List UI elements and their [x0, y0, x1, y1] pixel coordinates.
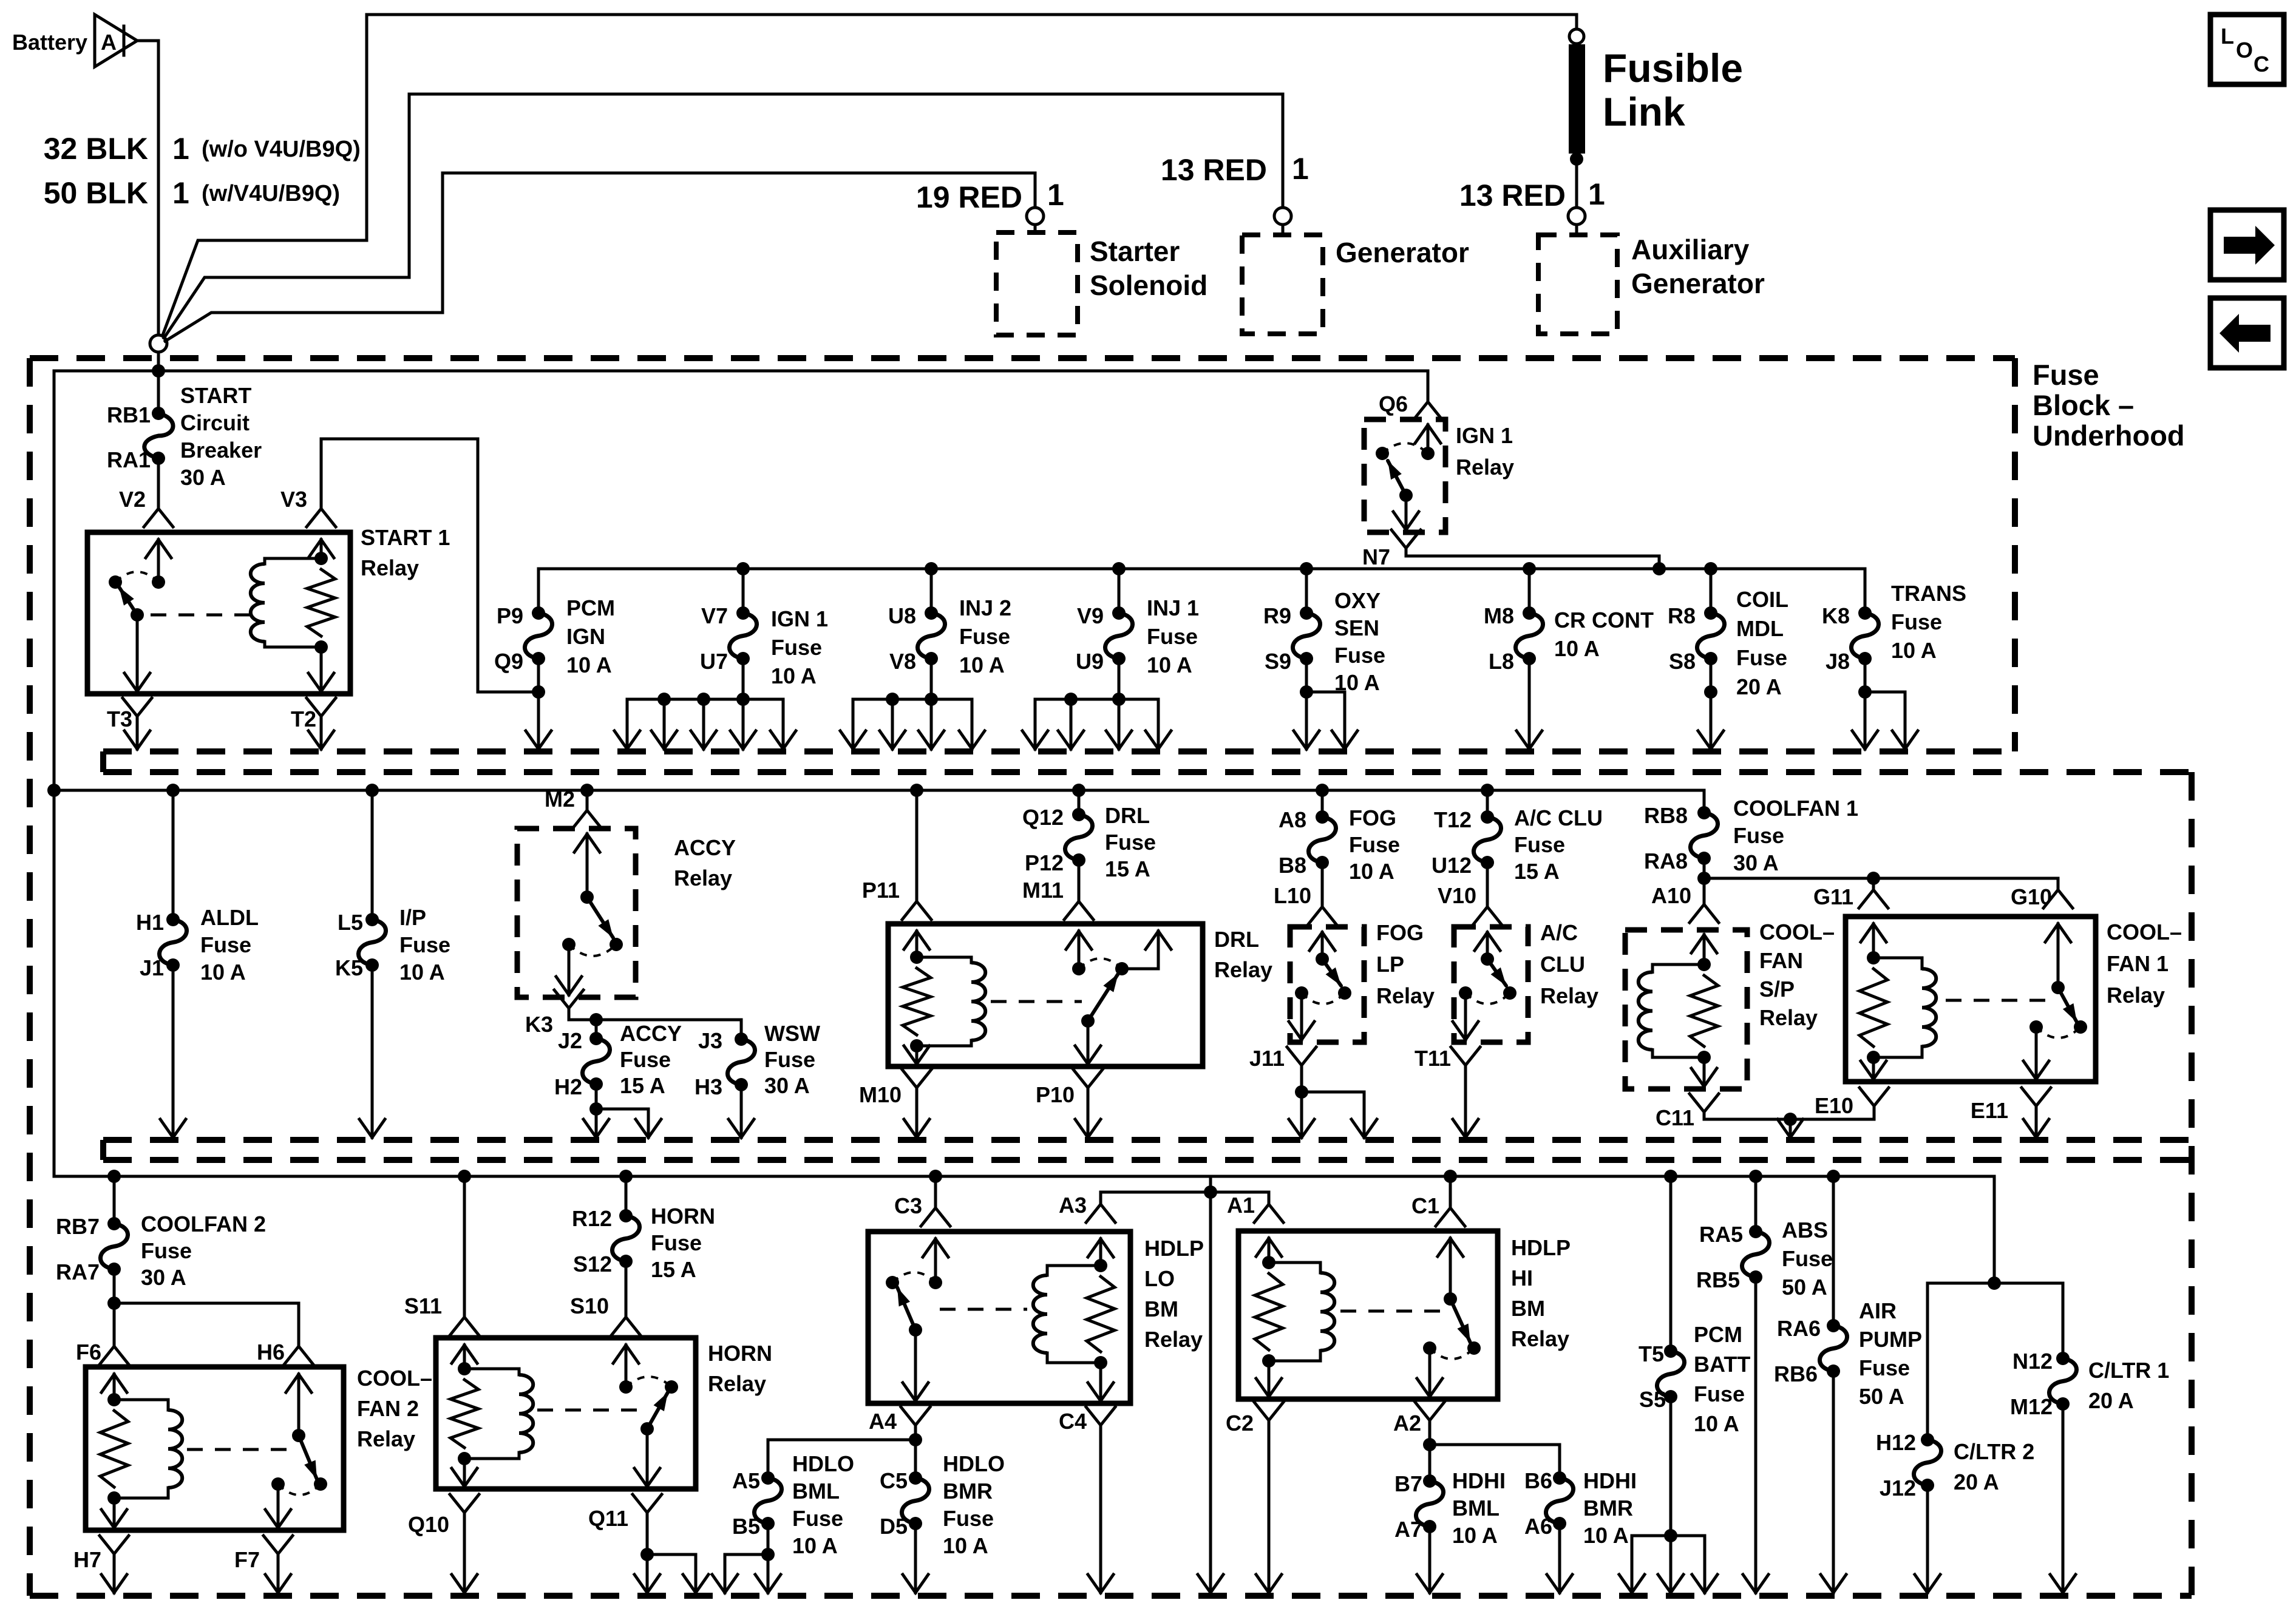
svg-text:32 BLK: 32 BLK	[44, 132, 148, 166]
svg-text:10 A: 10 A	[200, 960, 246, 985]
fuse HDLO BMR 10A	[914, 1440, 917, 1478]
PCM BATT output arrows	[1669, 1397, 1673, 1536]
bus band1	[54, 370, 1428, 373]
svg-text:Fuse: Fuse	[943, 1506, 994, 1531]
ACCY relay switch	[586, 834, 589, 897]
terminal A10	[1703, 878, 1706, 904]
svg-text:S8: S8	[1669, 649, 1696, 674]
fuse ALDL 10A	[166, 784, 180, 797]
svg-text:PCM: PCM	[1694, 1322, 1742, 1347]
svg-text:13 RED: 13 RED	[1459, 178, 1566, 212]
svg-text:PCM: PCM	[566, 595, 615, 620]
DRL relay resistor	[903, 968, 931, 1035]
svg-text:B6: B6	[1524, 1468, 1552, 1493]
terminal A2	[1415, 1402, 1444, 1420]
svg-text:V8: V8	[889, 649, 916, 674]
svg-text:Q10: Q10	[408, 1512, 449, 1537]
fuse COIL MDL 20A	[1704, 562, 1717, 575]
S/P relay coil	[1652, 963, 1704, 966]
fuse INJ 2 10A	[925, 562, 938, 575]
svg-text:D5: D5	[880, 1514, 908, 1539]
svg-text:50 A: 50 A	[1782, 1275, 1827, 1300]
HDLP HI BM relay coil block	[1268, 1238, 1271, 1263]
HI BM relay coil	[1269, 1261, 1320, 1264]
terminal S11	[458, 1170, 471, 1183]
svg-text:FOG: FOG	[1349, 805, 1396, 830]
svg-text:15 A: 15 A	[1105, 856, 1150, 881]
HDLO BMR output arrow	[914, 1524, 917, 1593]
wire PCM IGN output	[537, 659, 540, 692]
HDLP LO BM relay switch	[934, 1239, 937, 1283]
svg-text:Generator: Generator	[1631, 268, 1765, 299]
svg-text:HDLP: HDLP	[1144, 1236, 1204, 1261]
svg-text:Relay: Relay	[361, 555, 419, 580]
svg-text:Q6: Q6	[1379, 392, 1408, 416]
terminal G10	[2057, 878, 2060, 890]
HORN relay coil block	[463, 1345, 466, 1369]
arrow T2 to band2	[320, 716, 323, 749]
START relay coil block	[320, 540, 323, 558]
svg-text:CR CONT: CR CONT	[1554, 608, 1654, 632]
terminal E10	[1860, 1088, 1889, 1106]
svg-text:COOL–: COOL–	[2107, 920, 2182, 944]
svg-text:Link: Link	[1603, 89, 1685, 134]
terminal P11	[910, 784, 923, 797]
COOLFAN1 relay coil block	[1872, 924, 1875, 958]
svg-text:FAN: FAN	[1759, 948, 1803, 973]
svg-text:MDL: MDL	[1736, 616, 1784, 641]
svg-text:U8: U8	[888, 603, 916, 628]
svg-text:N12: N12	[2012, 1349, 2053, 1374]
svg-text:FOG: FOG	[1376, 920, 1424, 945]
svg-text:10 A: 10 A	[1147, 653, 1192, 677]
svg-text:B8: B8	[1279, 853, 1306, 878]
svg-text:S9: S9	[1265, 649, 1291, 674]
svg-text:Relay: Relay	[708, 1371, 766, 1396]
svg-text:G11: G11	[1813, 884, 1853, 909]
svg-text:M10: M10	[859, 1082, 902, 1107]
svg-text:15 A: 15 A	[620, 1073, 665, 1098]
svg-text:COIL: COIL	[1736, 587, 1788, 612]
fuse block dashed border right band1	[2012, 358, 2018, 751]
terminal P10	[1073, 1070, 1102, 1088]
E11 output arrow	[2035, 1106, 2038, 1137]
wire A2 to HDHI fuses	[1428, 1420, 1432, 1445]
svg-text:Relay: Relay	[1214, 957, 1272, 982]
HDLO BML output arrows	[767, 1524, 770, 1554]
svg-text:K5: K5	[335, 955, 363, 980]
terminal C3	[929, 1170, 942, 1183]
svg-text:K8: K8	[1822, 603, 1850, 628]
terminal J11	[1287, 1047, 1316, 1065]
fuse COOLFAN 1 30A	[1703, 790, 1706, 813]
HORN relay coil	[464, 1368, 519, 1371]
svg-text:Fuse: Fuse	[1782, 1246, 1833, 1271]
svg-text:H7: H7	[73, 1547, 101, 1572]
INJ 2 fuse output manifold	[930, 659, 933, 699]
svg-text:J11: J11	[1249, 1046, 1285, 1071]
svg-text:10 A: 10 A	[1452, 1523, 1498, 1548]
generator box	[1242, 235, 1323, 334]
svg-text:Fuse: Fuse	[1694, 1381, 1745, 1406]
COOLFAN2 relay coil	[114, 1398, 168, 1402]
left vertical bus	[53, 371, 56, 1176]
COOLFAN1 relay coil	[1873, 957, 1922, 960]
svg-text:S10: S10	[570, 1293, 609, 1318]
svg-text:10 A: 10 A	[1554, 636, 1600, 661]
svg-text:Block –: Block –	[2033, 389, 2134, 421]
svg-text:M2: M2	[545, 787, 575, 812]
right arrow box	[2210, 210, 2284, 280]
svg-text:START 1: START 1	[361, 525, 450, 550]
Q11 output arrows	[646, 1513, 649, 1554]
svg-text:30 A: 30 A	[764, 1073, 810, 1098]
terminal M2	[580, 784, 594, 797]
terminal C11	[1690, 1094, 1719, 1112]
svg-text:HDHI: HDHI	[1452, 1468, 1506, 1493]
svg-text:Underhood: Underhood	[2033, 419, 2185, 452]
svg-text:HDLO: HDLO	[792, 1451, 854, 1476]
svg-text:Breaker: Breaker	[180, 438, 262, 463]
svg-text:Starter: Starter	[1090, 236, 1180, 267]
wire C/LTR feed	[1993, 1176, 1996, 1283]
svg-text:P12: P12	[1025, 850, 1064, 875]
terminal A4	[901, 1407, 930, 1425]
svg-text:30 A: 30 A	[1733, 850, 1779, 875]
svg-text:P11: P11	[862, 878, 900, 903]
terminal A1	[1268, 1192, 1271, 1204]
svg-text:A1: A1	[1227, 1193, 1255, 1218]
svg-text:RA6: RA6	[1777, 1316, 1821, 1341]
ALDL output arrow	[172, 965, 175, 1137]
HDLP LO BM relay coil block	[1099, 1239, 1102, 1266]
svg-text:F7: F7	[234, 1547, 260, 1572]
svg-text:S/P: S/P	[1759, 977, 1795, 1002]
svg-text:Fuse: Fuse	[959, 624, 1010, 649]
fuse HORN 15A	[619, 1170, 633, 1183]
svg-text:10 A: 10 A	[771, 663, 817, 688]
DRL relay coil block	[915, 931, 919, 957]
svg-text:B5: B5	[732, 1514, 760, 1539]
svg-text:Q9: Q9	[494, 649, 523, 674]
svg-text:L5: L5	[338, 910, 363, 935]
fuse INJ 1 10A	[1112, 562, 1126, 575]
svg-text:A3: A3	[1059, 1193, 1087, 1218]
terminal Q10	[450, 1494, 479, 1513]
DRL relay coil	[917, 956, 971, 959]
bus band3	[54, 1175, 1994, 1178]
START relay coil	[265, 557, 321, 560]
svg-text:Fuse: Fuse	[1736, 645, 1787, 670]
DRL relay switch	[1078, 931, 1081, 969]
svg-text:A: A	[101, 30, 117, 55]
svg-text:1: 1	[172, 176, 189, 210]
svg-text:RA7: RA7	[56, 1259, 100, 1284]
COOLFAN2 relay switch	[297, 1374, 301, 1436]
COOLFAN 1 relay box	[1846, 917, 2096, 1082]
wire A4 to HDLO fuses	[914, 1425, 917, 1440]
fuse HDLO BML 10A	[767, 1440, 770, 1478]
START relay switch	[157, 540, 160, 582]
left arrow box	[2210, 298, 2284, 368]
fuse HDHI BML 10A	[1428, 1445, 1432, 1481]
svg-text:L8: L8	[1489, 649, 1514, 674]
svg-text:A/C CLU: A/C CLU	[1514, 805, 1603, 830]
svg-text:Fuse: Fuse	[2033, 359, 2099, 391]
svg-text:FAN 1: FAN 1	[2107, 951, 2169, 976]
terminal E11	[2022, 1088, 2051, 1106]
svg-text:CLU: CLU	[1540, 952, 1585, 977]
svg-text:V9: V9	[1077, 603, 1104, 628]
svg-text:Q11: Q11	[588, 1506, 628, 1531]
svg-text:Fuse: Fuse	[792, 1506, 843, 1531]
svg-text:M8: M8	[1484, 603, 1514, 628]
fuse PCM BATT 10A	[1664, 1170, 1677, 1183]
svg-text:TRANS: TRANS	[1891, 581, 1966, 606]
svg-text:T5: T5	[1639, 1341, 1664, 1366]
svg-text:Relay: Relay	[1540, 983, 1598, 1008]
svg-text:INJ 1: INJ 1	[1147, 595, 1199, 620]
svg-text:C5: C5	[880, 1468, 908, 1493]
svg-text:H2: H2	[554, 1074, 582, 1099]
svg-text:RA1: RA1	[107, 447, 151, 472]
svg-text:F6: F6	[76, 1340, 101, 1364]
terminal L10	[1321, 863, 1324, 907]
HI BM relay resistor	[1255, 1273, 1283, 1350]
svg-text:COOLFAN 1: COOLFAN 1	[1733, 796, 1858, 821]
svg-text:L10: L10	[1274, 883, 1311, 908]
circuit breaker START 30A	[157, 371, 160, 413]
svg-text:Fusible: Fusible	[1603, 46, 1743, 90]
ACCY fuse output	[595, 1084, 598, 1109]
svg-text:HDLO: HDLO	[943, 1451, 1005, 1476]
terminal H6	[297, 1303, 301, 1346]
svg-text:RB6: RB6	[1774, 1361, 1818, 1386]
svg-text:BATT: BATT	[1694, 1352, 1750, 1377]
svg-text:10 A: 10 A	[399, 960, 445, 985]
svg-text:Fuse: Fuse	[764, 1047, 815, 1072]
HDLP HI BM relay box	[1238, 1231, 1498, 1399]
fusible link	[1569, 29, 1584, 44]
ACCY relay dashed box	[517, 829, 636, 997]
COOLFAN1 relay switch	[2057, 924, 2060, 988]
wire A3/A1 feed	[1209, 1176, 1212, 1192]
fuse block outer dashed border left	[27, 358, 33, 1596]
svg-text:10 A: 10 A	[943, 1533, 988, 1558]
svg-text:RA5: RA5	[1699, 1222, 1743, 1247]
band2 bottom dashed border	[103, 1137, 2192, 1143]
START relay resistor	[307, 569, 335, 636]
terminal C2	[1254, 1402, 1283, 1420]
svg-text:Relay: Relay	[1144, 1327, 1203, 1352]
terminal V10	[1486, 863, 1489, 907]
svg-text:IGN: IGN	[566, 624, 605, 649]
svg-text:E11: E11	[1971, 1098, 2008, 1123]
terminal S10	[625, 1261, 628, 1317]
wire to G11/G10	[1704, 877, 2058, 880]
WSW fuse output	[740, 1085, 743, 1137]
svg-text:10 A: 10 A	[959, 653, 1005, 677]
svg-text:H3: H3	[695, 1074, 722, 1099]
svg-text:V7: V7	[701, 603, 728, 628]
terminal C4	[1086, 1407, 1115, 1425]
terminal G11	[1872, 878, 1875, 890]
fuse block dashed border top	[30, 355, 2015, 361]
fuse DRL 15A	[1072, 784, 1085, 797]
S/P relay coil block	[1703, 935, 1706, 964]
svg-text:Auxiliary: Auxiliary	[1631, 234, 1750, 265]
svg-text:N7: N7	[1362, 544, 1390, 569]
svg-text:Relay: Relay	[1456, 455, 1514, 480]
bus band1 fuse feed	[538, 568, 1865, 571]
svg-text:T3: T3	[107, 707, 132, 731]
wire V3 feed from PCM IGN node	[321, 439, 538, 692]
IGN 1 relay switch	[1427, 425, 1430, 453]
svg-text:IGN 1: IGN 1	[1456, 423, 1513, 448]
svg-text:A7: A7	[1394, 1517, 1422, 1542]
terminal F6	[113, 1303, 116, 1346]
svg-text:LP: LP	[1376, 952, 1404, 977]
J11 output arrows	[1300, 1065, 1303, 1092]
svg-text:A8: A8	[1279, 807, 1306, 832]
svg-text:BML: BML	[1452, 1496, 1500, 1520]
svg-text:Relay: Relay	[357, 1426, 415, 1451]
fuse I/P 10A	[365, 784, 379, 797]
OXY SEN fuse output	[1305, 659, 1308, 692]
svg-text:C4: C4	[1059, 1409, 1087, 1434]
svg-text:S5: S5	[1639, 1387, 1666, 1412]
terminal C1	[1444, 1170, 1457, 1183]
fuse ABS 50A	[1749, 1170, 1762, 1183]
svg-text:SEN: SEN	[1334, 615, 1379, 640]
svg-text:(w/V4U/B9Q): (w/V4U/B9Q)	[202, 181, 340, 206]
svg-text:HI: HI	[1511, 1266, 1533, 1290]
svg-text:Generator: Generator	[1336, 237, 1469, 268]
svg-text:J2: J2	[558, 1028, 582, 1053]
START 1 relay box	[87, 532, 350, 694]
COOLFAN2 relay resistor	[100, 1411, 128, 1487]
svg-text:C/LTR 1: C/LTR 1	[2088, 1358, 2169, 1383]
INJ 1 fuse output manifold	[1118, 659, 1121, 699]
svg-text:Fuse: Fuse	[651, 1230, 702, 1255]
terminal T2	[307, 698, 336, 716]
fuse FOG 10A	[1316, 784, 1329, 797]
HDLP LO BM relay linkage	[940, 1308, 1027, 1311]
IGN 1 fuse output manifold	[742, 659, 745, 699]
wire fan line 2 to generator	[164, 94, 1283, 338]
E10 junction arrow	[1789, 1119, 1792, 1137]
terminal Q6	[1427, 371, 1430, 401]
svg-text:Fuse: Fuse	[620, 1047, 671, 1072]
terminal A3	[1099, 1192, 1102, 1204]
svg-text:AIR: AIR	[1859, 1298, 1897, 1323]
svg-text:Circuit: Circuit	[180, 410, 250, 435]
auxiliary generator connector	[1568, 208, 1585, 225]
svg-text:19 RED: 19 RED	[916, 180, 1022, 214]
svg-text:20 A: 20 A	[2088, 1388, 2134, 1413]
svg-text:Relay: Relay	[1511, 1326, 1569, 1351]
svg-text:BML: BML	[792, 1479, 840, 1503]
terminal N7	[1391, 530, 1421, 548]
svg-text:COOLFAN 2: COOLFAN 2	[141, 1212, 266, 1236]
svg-text:OXY: OXY	[1334, 588, 1381, 613]
svg-text:O: O	[2236, 38, 2253, 63]
svg-text:P10: P10	[1036, 1082, 1075, 1107]
START relay linkage	[151, 614, 255, 617]
HORN relay box	[436, 1338, 696, 1489]
band3 bottom dashed border	[30, 1593, 2192, 1599]
terminal T3	[123, 698, 152, 716]
svg-text:BM: BM	[1511, 1296, 1545, 1321]
svg-text:M12: M12	[2010, 1394, 2053, 1419]
arrow T3 to band2	[136, 716, 139, 749]
fuse CR CONT 10A	[1523, 562, 1536, 575]
fuse WSW 30A	[740, 1020, 743, 1039]
svg-text:PUMP: PUMP	[1859, 1327, 1922, 1352]
band1 bottom dashed border	[103, 748, 2015, 754]
COOLFAN2 relay linkage	[187, 1448, 293, 1451]
HDHI BMR output arrow	[1558, 1524, 1561, 1593]
svg-text:10 A: 10 A	[1891, 638, 1937, 663]
svg-text:(w/o V4U/B9Q): (w/o V4U/B9Q)	[202, 137, 361, 162]
svg-text:Fuse: Fuse	[1859, 1355, 1910, 1380]
svg-text:20 A: 20 A	[1736, 674, 1782, 699]
svg-text:20 A: 20 A	[1954, 1470, 1999, 1494]
svg-text:L: L	[2221, 24, 2234, 49]
svg-text:ABS: ABS	[1782, 1218, 1828, 1242]
svg-text:Relay: Relay	[674, 866, 732, 890]
fuse C/LTR 2 20A	[1926, 1283, 1929, 1440]
wire K3 to ACCY/WSW fuses	[569, 1008, 741, 1020]
svg-text:WSW: WSW	[764, 1021, 820, 1046]
terminal H7	[100, 1536, 129, 1554]
svg-text:A4: A4	[869, 1409, 897, 1434]
svg-text:1: 1	[172, 132, 189, 166]
LO BM relay resistor	[1087, 1276, 1115, 1352]
svg-text:INJ 2: INJ 2	[959, 595, 1011, 620]
wire fan line 3 to starter solenoid	[165, 173, 1035, 341]
svg-text:10 A: 10 A	[1694, 1411, 1739, 1436]
FOG relay switch	[1321, 932, 1324, 959]
bus band2	[54, 789, 1704, 792]
node battery to bus1	[157, 353, 160, 371]
svg-text:U9: U9	[1076, 649, 1104, 674]
A/C CLU relay dashed box	[1454, 927, 1528, 1042]
svg-text:FAN 2: FAN 2	[357, 1396, 419, 1421]
terminal M10	[902, 1070, 931, 1088]
svg-text:HORN: HORN	[651, 1204, 715, 1229]
svg-text:HORN: HORN	[708, 1341, 772, 1366]
svg-text:30 A: 30 A	[180, 465, 226, 490]
S/P relay resistor	[1690, 975, 1718, 1046]
wire C11 to E10	[1704, 1112, 1874, 1119]
fuse COOLFAN 2 30A	[107, 1170, 121, 1183]
fuse ACCY 15A	[595, 1020, 598, 1039]
svg-text:A6: A6	[1524, 1514, 1552, 1539]
fuse PCM IGN 10A	[537, 569, 540, 613]
svg-text:U7: U7	[700, 649, 728, 674]
svg-text:R8: R8	[1668, 603, 1696, 628]
HORN relay switch	[625, 1345, 628, 1387]
band2 top dashed border	[103, 769, 2192, 775]
svg-text:COOL–: COOL–	[1759, 920, 1835, 944]
svg-text:DRL: DRL	[1214, 927, 1259, 952]
svg-text:S11: S11	[404, 1293, 442, 1318]
wire fan line 1 to fusible link	[163, 15, 1577, 335]
svg-text:50 A: 50 A	[1859, 1384, 1904, 1409]
svg-text:E10: E10	[1815, 1093, 1853, 1118]
svg-text:Fuse: Fuse	[141, 1238, 192, 1263]
